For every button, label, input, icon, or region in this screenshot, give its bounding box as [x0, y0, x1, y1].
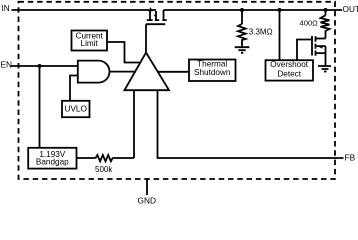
box thermal shutdown: [189, 60, 236, 82]
wire AND output to amp: [110, 71, 137, 73]
resistor R2 500k zigzag: [96, 155, 134, 161]
wire amp output to thermal shutdown: [158, 71, 190, 73]
wire overshoot to Q2 gate: [297, 40, 311, 61]
svg-text:500k: 500k: [95, 165, 113, 174]
svg-text:400Ω: 400Ω: [300, 19, 319, 28]
transistor Q1 body arrow: [154, 14, 157, 17]
wire amp left input leg: [133, 90, 135, 158]
svg-text:EN: EN: [1, 60, 13, 70]
transistor Q1 drain lead: [163, 10, 165, 20]
resistor R3 3.3M lead: [241, 10, 243, 24]
wire EN to bandgap: [39, 66, 41, 148]
transistor Q1 body lead: [155, 11, 157, 20]
transistor Q1 source arrow: [148, 7, 152, 11]
svg-text:FB: FB: [345, 153, 356, 163]
transistor Q2 channel segments: [315, 36, 317, 55]
wire UVLO to AND input: [70, 76, 78, 101]
AND gate U2: [78, 61, 110, 83]
ground for Q2: [318, 66, 331, 72]
transistor Q2 body lead: [316, 45, 326, 47]
wire amp right input leg / FB line: [158, 90, 344, 158]
svg-text:UVLO: UVLO: [65, 105, 87, 114]
junction node R3: [240, 8, 244, 12]
wire gate to error amp apex: [145, 24, 147, 52]
transistor Q1 pass PMOS source lead: [149, 11, 151, 20]
transistor Q1 gate bar: [146, 23, 165, 25]
svg-text:OUT: OUT: [343, 4, 358, 14]
svg-text:IN: IN: [2, 3, 10, 13]
svg-text:Thermal: Thermal: [197, 59, 227, 68]
svg-text:Bandgap: Bandgap: [36, 158, 69, 167]
junction node overshoot: [278, 8, 282, 12]
op-amp U1 error amplifier triangle: [125, 53, 170, 91]
box UVLO: [62, 101, 90, 117]
transistor Q1 channel segments: [147, 19, 167, 21]
svg-text:Limit: Limit: [81, 39, 99, 48]
svg-text:Shutdown: Shutdown: [194, 68, 231, 77]
junction node on EN: [38, 64, 42, 68]
svg-text:3.3MΩ: 3.3MΩ: [249, 27, 273, 36]
box overshoot detect: [266, 60, 314, 80]
ground for R3: [235, 47, 250, 53]
resistor R1 400 zigzag: [321, 15, 330, 38]
wire current limit to amp: [107, 42, 141, 63]
wire IN rail: [12, 9, 157, 11]
junction node R1: [324, 8, 328, 12]
transistor Q2 drain lead: [316, 38, 326, 40]
svg-text:Overshoot: Overshoot: [270, 60, 308, 69]
pin GND stub: [146, 179, 148, 195]
resistor R1 400 lead: [325, 10, 327, 15]
box current limit: [72, 31, 108, 51]
wire OUT to overshoot detect: [279, 10, 281, 60]
wire EN input: [11, 65, 78, 67]
wire bandgap to resistor R2: [77, 157, 96, 159]
box bandgap: [28, 148, 76, 169]
transistor Q2 gate bar: [311, 36, 313, 56]
wire OUT rail: [164, 9, 343, 11]
svg-text:GND: GND: [138, 196, 156, 206]
transistor Q2 source lead: [316, 46, 326, 66]
dashed chip boundary: [19, 2, 336, 179]
transistor Q2 body arrow: [319, 47, 323, 49]
resistor R3 3.3M zigzag: [238, 24, 246, 46]
svg-text:Detect: Detect: [277, 70, 301, 79]
